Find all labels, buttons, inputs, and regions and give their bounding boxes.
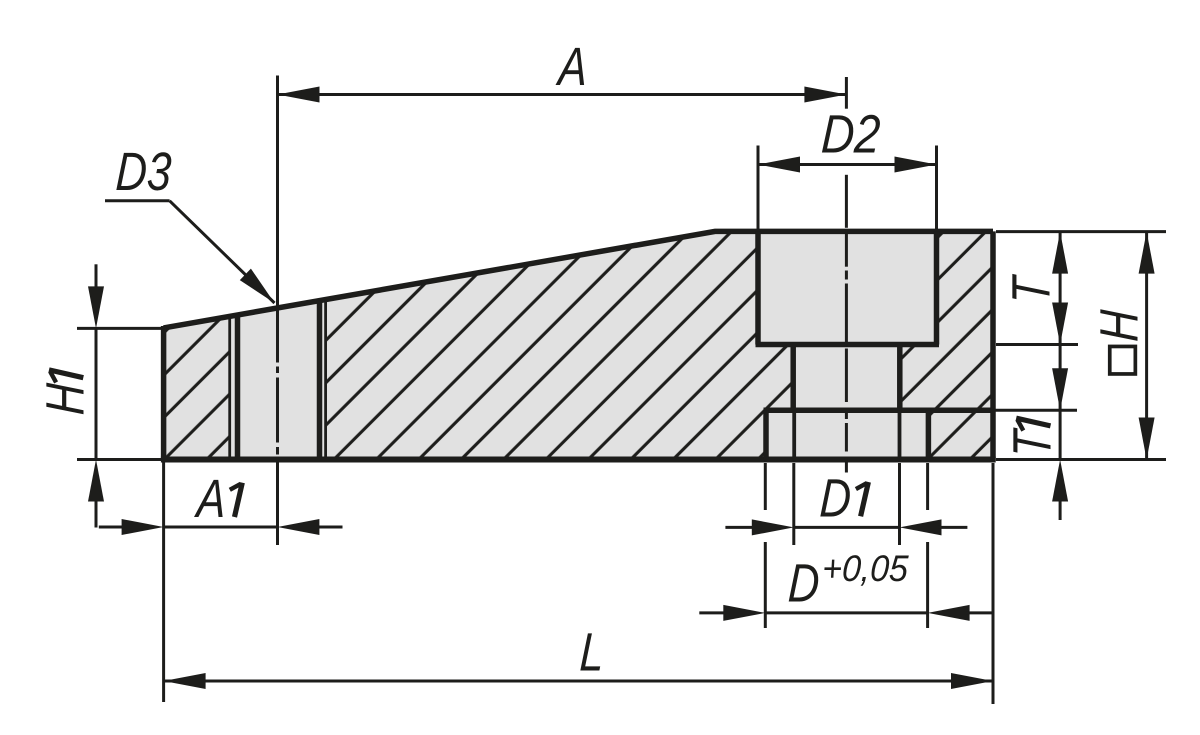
dimension D1: right arrowhead (points left) — [900, 519, 942, 535]
section hatching (material region = silhouette minus holes) — [164, 231, 993, 459]
counterbore D2: bottom face — [756, 342, 940, 348]
svg-text:D: D — [787, 554, 821, 614]
recess ceiling extension (for T1) — [995, 409, 1077, 412]
centerline of right hole (dash) — [845, 284, 848, 344]
centerline of left tapped hole (extension below for dim A1) — [276, 459, 279, 546]
dimension D2: extension line left — [757, 146, 760, 231]
svg-text:D3: D3 — [114, 143, 172, 203]
centerline of right hole (short segment below part) — [845, 458, 848, 473]
dimension T: top arrowhead (up) — [1052, 232, 1068, 274]
dimension A1: label — [193, 470, 242, 530]
dimension H1: upper arrowhead (down) — [88, 286, 104, 328]
dimension squareH: square symbol — [1110, 346, 1136, 374]
leader D3: arrowhead — [240, 269, 275, 303]
dimension D: left tail — [699, 611, 727, 614]
part outline: left edge — [161, 326, 167, 460]
part outline: right edge — [990, 231, 996, 461]
svg-text:A: A — [193, 470, 227, 530]
dimension squareH: top arrowhead (up) — [1139, 232, 1155, 274]
dimension L: right arrowhead (points right) — [951, 673, 993, 689]
leader D3: horizontal segment — [105, 199, 170, 202]
dimension H1: connecting line between extents — [95, 328, 98, 459]
left tapped hole: thread major diameter thin line (left) — [228, 316, 231, 458]
dimension T1: label (rotated) — [1003, 418, 1063, 459]
dimension A1: left arrowhead (points right) — [122, 519, 164, 535]
left tapped hole: bore thick line (right) — [317, 300, 323, 458]
top edge extension (for T and squareH) — [996, 230, 1166, 233]
dimension A1: left tail — [99, 526, 126, 529]
dimension D2: right arrowhead — [895, 157, 937, 173]
hole D1 visible edge inside recess (right) — [898, 410, 902, 459]
dimension D: right tail — [966, 611, 993, 614]
dimension D1: dimension line — [794, 526, 900, 529]
bottom recess D: right wall — [926, 410, 932, 459]
centerline of left tapped hole (dash) — [276, 378, 279, 443]
dimension H1: extension line bottom — [77, 458, 163, 461]
dimension squareH: dimension line — [1145, 232, 1148, 460]
dimension D1: extension line right — [898, 463, 901, 545]
centerline of left tapped hole (dot) — [276, 447, 279, 455]
dimension A1: right arrowhead (points left) — [277, 519, 319, 535]
dimension H1: lower arrowhead (up) — [88, 460, 104, 502]
hole D1: left wall — [790, 345, 796, 411]
svg-text:H: H — [36, 382, 96, 417]
dimension A: left arrowhead — [278, 87, 320, 103]
left tapped hole: thread major diameter thin line (right) — [324, 299, 327, 458]
dimension A1: left extension line (shared with L, part left edge extended) — [162, 462, 165, 702]
dimension squareH: bottom arrowhead (down) — [1139, 418, 1155, 460]
dimension A: right arrowhead — [804, 87, 846, 103]
svg-text:H: H — [1090, 308, 1150, 343]
svg-text:D: D — [818, 469, 852, 529]
hole D1: right wall — [897, 345, 903, 411]
centerline of left tapped hole (dot) — [276, 367, 279, 374]
dimension T1: connecting line between extents — [1059, 410, 1062, 459]
part body fill (gray silhouette) — [164, 231, 993, 459]
dimension T1: lower arrowhead (up, below part) — [1052, 460, 1068, 502]
part outline: top slanted edge and top horizontal edge — [164, 231, 993, 328]
dimension A: dimension line — [278, 93, 847, 96]
centerline of right hole (dot) — [845, 271, 848, 280]
dimension L: right extension line — [992, 463, 995, 704]
centerline of left tapped hole (extension above for dim A + first dash) — [276, 76, 279, 363]
centerline of right hole (extension above for dim A) — [845, 77, 848, 109]
left tapped hole: bore thick line (left) — [235, 315, 241, 458]
part outline: bottom edge — [161, 457, 996, 463]
dimension D: extension line right (with gap at D1 line) — [926, 463, 929, 510]
dimension D2: left arrowhead — [758, 157, 800, 173]
dimension A1: right tail — [316, 526, 343, 529]
dimension D: right arrowhead (points left) — [928, 605, 970, 621]
bottom recess D: left wall — [763, 410, 769, 459]
dimension L: left arrowhead (points left) — [164, 673, 206, 689]
dimension D1: extension line left — [792, 463, 795, 545]
leader D3: slanted segment — [170, 201, 275, 303]
bottom recess D: ceiling edge (thick, runs to right edge) — [764, 407, 996, 413]
dimension D1: label — [818, 469, 868, 529]
dimension T: dimension line (continues down to T1 tip) — [1059, 232, 1062, 411]
dimension D1: left arrowhead (points right) — [752, 519, 794, 535]
dimension D: dimension line — [765, 611, 927, 614]
dimension H1: upper tail — [95, 264, 98, 290]
svg-text:+0,05: +0,05 — [821, 548, 909, 590]
dimension D: extension line left (with gap at D1 line) — [764, 463, 767, 510]
counterbore D2: right wall — [934, 231, 940, 344]
centerline of right hole (dash) — [845, 349, 848, 403]
dimension H1: label (rotated) — [36, 370, 96, 416]
dimension A1: dimension line — [164, 526, 278, 529]
svg-text:D2: D2 — [820, 104, 882, 164]
centerline of right hole (dash) — [845, 232, 848, 267]
svg-text:T: T — [1002, 273, 1062, 305]
dimension H1: extension line top — [77, 327, 163, 330]
hole D1 visible edge inside recess (left) — [792, 410, 796, 459]
dimension T1: lower tail — [1059, 498, 1062, 520]
dimension T1: upper arrowhead (down, tip at recess ceiling ext) — [1052, 368, 1068, 410]
svg-text:A: A — [554, 38, 588, 98]
dimension D2: dimension line — [758, 163, 937, 166]
bottom edge extension (for T1 and squareH) — [996, 458, 1166, 461]
counterbore D2: left wall — [755, 231, 761, 344]
svg-text:T: T — [1003, 427, 1063, 459]
dimension L: dimension line — [164, 680, 993, 683]
dimension H1: lower tail — [95, 498, 98, 528]
dimension D: left arrowhead (points right) — [723, 605, 765, 621]
centerline of right hole (segment between D2 label and part) — [845, 175, 848, 228]
centerline of right hole (dash) — [845, 423, 848, 452]
centerline of right hole (dot) — [845, 412, 848, 420]
dimension T: bottom arrowhead (down) — [1052, 303, 1068, 345]
dimension D1: right tail — [938, 526, 967, 529]
dimension D2: extension line right — [935, 146, 938, 231]
svg-text:L: L — [578, 623, 605, 683]
counterbore bottom extension (for T) — [996, 343, 1078, 346]
dimension D1: left tail — [725, 526, 756, 529]
